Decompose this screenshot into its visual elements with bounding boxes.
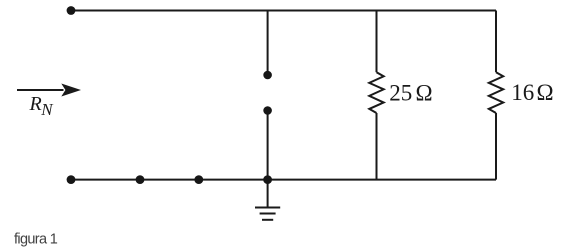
wire 25-ohm branch top lead	[376, 11, 378, 73]
wire 16-ohm branch bottom lead	[495, 113, 497, 180]
svg-text:16 Ω: 16 Ω	[511, 80, 553, 105]
node dot switch lower	[263, 106, 272, 115]
wire middle vertical upper segment	[267, 11, 269, 76]
wire 25-ohm branch bottom lead	[376, 113, 378, 180]
wire bottom horizontal	[71, 179, 496, 181]
arrow RN	[17, 84, 81, 97]
ground symbol	[255, 208, 280, 220]
svg-text:figura 1: figura 1	[14, 231, 58, 247]
node dot bottom wire b	[194, 175, 203, 184]
node dot bottom wire a	[136, 175, 145, 184]
node dot bottom-left terminal	[67, 175, 76, 184]
resistor 16 ohm zigzag	[489, 72, 503, 113]
wire ground stem	[267, 180, 269, 208]
node dot top-left terminal	[67, 6, 76, 15]
wire 16-ohm branch top lead	[495, 11, 497, 73]
svg-text:RN: RN	[29, 93, 55, 119]
wire middle vertical lower segment	[267, 111, 269, 181]
wire top horizontal	[70, 10, 496, 12]
node dot switch upper	[263, 71, 272, 80]
node dot ground junction	[263, 175, 272, 184]
resistor 25 ohm zigzag	[369, 72, 383, 113]
svg-text:25 Ω: 25 Ω	[389, 81, 432, 106]
